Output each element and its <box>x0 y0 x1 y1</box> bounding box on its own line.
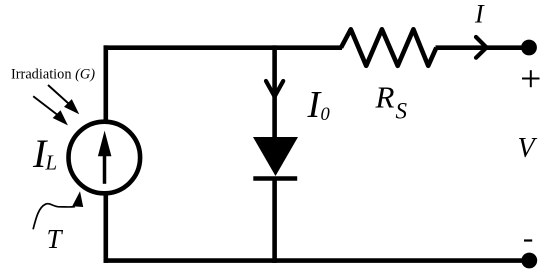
output current arrow I (chevron on top right wire) <box>476 37 487 58</box>
wire: left vertical upper (top node to current source) <box>104 45 109 124</box>
label - <box>524 239 532 241</box>
resistor R_S (zigzag) <box>341 29 436 66</box>
svg-text:I: I <box>474 0 485 29</box>
irradiation arrow 1 (upper) <box>48 85 79 114</box>
svg-text:Irradiation (G): Irradiation (G) <box>11 65 95 82</box>
temperature arrow (curved, pointing at source) <box>33 191 83 229</box>
wire: bottom horizontal, node N2 (ground rail to - terminal) <box>104 258 530 263</box>
wire: left vertical lower (current source to bottom node) <box>104 191 109 263</box>
svg-text:L: L <box>45 151 58 175</box>
svg-text:V: V <box>518 133 538 164</box>
label R_S <box>375 80 408 124</box>
label I_0 <box>307 84 331 126</box>
label I_L <box>32 131 57 176</box>
wire: middle vertical lower (diode cathode to bottom node) <box>272 177 277 263</box>
irradiation arrow 2 (lower) <box>33 96 68 125</box>
svg-text:R: R <box>375 80 395 115</box>
diode current direction arrow (on middle branch) <box>266 81 283 97</box>
diode D1 (triangle + cathode bar) <box>253 137 298 179</box>
wire: middle vertical upper (top node to diode anode) <box>272 45 277 140</box>
svg-text:0: 0 <box>321 105 331 125</box>
svg-text:T: T <box>47 224 64 254</box>
terminal + (positive, filled dot) <box>521 40 537 56</box>
svg-text:S: S <box>396 99 408 124</box>
current source I_L (circle with upward arrow) <box>69 122 141 194</box>
wire: top right horizontal (resistor to + terminal) <box>436 45 530 50</box>
terminal - (negative, filled dot) <box>521 253 537 269</box>
label + <box>522 70 540 87</box>
wire: top horizontal, node N1 (source/diode junction to resistor) <box>104 45 343 50</box>
